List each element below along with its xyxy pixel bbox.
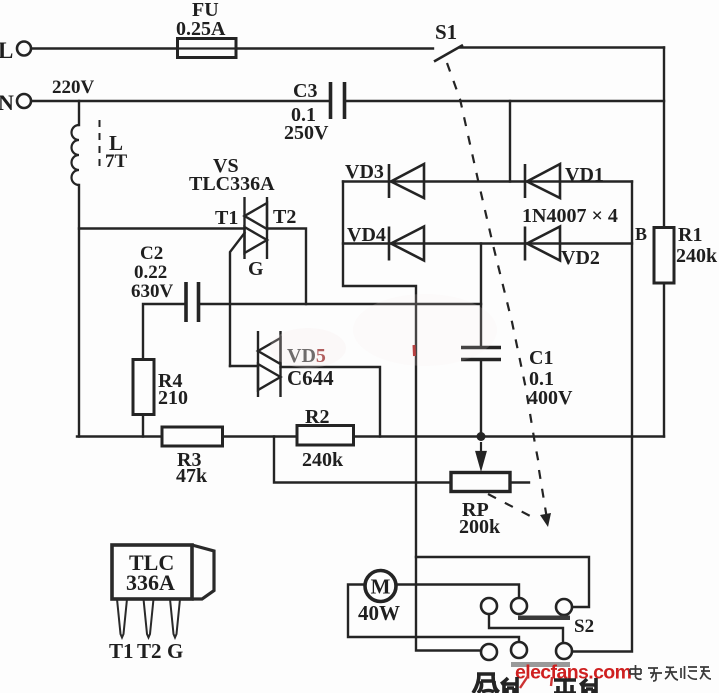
S2 contact A (481, 598, 497, 614)
svg-text:400V: 400V (528, 387, 573, 409)
switch S1 blade (434, 45, 463, 62)
svg-text:T1: T1 (215, 207, 238, 229)
wire T2 lead and drop (267, 229, 306, 305)
label zhengxiang 正向 (drawn strokes) (554, 678, 596, 693)
svg-text:N: N (0, 90, 14, 115)
RP wiper arrow (477, 442, 486, 468)
svg-text:T1: T1 (109, 639, 134, 663)
wire A to F link (489, 614, 563, 643)
svg-text:VD4: VD4 (347, 224, 386, 246)
wire R1 bottom to bottom bus (663, 283, 665, 437)
svg-text:C644: C644 (287, 366, 334, 390)
wire VD5 left lead (230, 365, 258, 367)
potentiometer RP (451, 473, 510, 492)
wire motor right to B (397, 585, 520, 599)
svg-text:VD1: VD1 (565, 164, 604, 186)
wire VD5 right lead to R2 right (281, 367, 381, 437)
diode VD4 (389, 227, 424, 261)
watermark chinese characters (drawn strokes) (630, 665, 711, 681)
wire bottom bus y=436 (77, 435, 664, 437)
node junction dot (477, 432, 486, 441)
label fanxiang 反向 (drawn strokes) (473, 674, 517, 693)
dashed link S1 to RP (447, 63, 547, 519)
wire node line y=304 (199, 303, 482, 305)
wire bridge right edge down to S2 (572, 182, 632, 652)
resistor R3 (162, 427, 223, 446)
svg-text:250V: 250V (284, 122, 329, 144)
wire N line (32, 100, 664, 102)
wire bridge left edge and step to x416 (343, 182, 481, 651)
resistor R2 (297, 426, 354, 446)
red tick on wire (413, 345, 417, 356)
wire L line fuse to S1 (236, 47, 433, 49)
svg-text:S1: S1 (435, 20, 457, 44)
svg-text:R1: R1 (678, 224, 702, 246)
svg-text:240k: 240k (676, 245, 718, 267)
S2 contact B (511, 598, 527, 614)
svg-text:630V: 630V (131, 281, 174, 302)
svg-text:240k: 240k (302, 449, 344, 471)
svg-text:220V: 220V (52, 77, 95, 98)
resistor R4 (133, 360, 154, 415)
terminal N (17, 94, 31, 108)
wire y557 link to S2 C (416, 557, 589, 607)
svg-text:40W: 40W (358, 601, 400, 625)
motor M (365, 571, 396, 602)
resistor R1 (654, 228, 674, 284)
svg-text:G: G (167, 639, 183, 663)
watermark faint blobs (353, 294, 497, 366)
wire bridge bottom row (343, 242, 632, 244)
svg-text:B: B (635, 224, 647, 244)
S2 slider bar bottom (511, 662, 570, 667)
triac VS TLC336A (245, 197, 268, 259)
svg-text:T2: T2 (137, 639, 162, 663)
inductor core dashed line (99, 120, 101, 168)
svg-text:7T: 7T (105, 151, 128, 172)
svg-text:0.25A: 0.25A (176, 18, 226, 40)
wire left vertical (78, 101, 80, 437)
svg-text:M: M (371, 575, 391, 599)
transistor VD5 C644 (258, 331, 281, 397)
capacitor C3 plates (331, 82, 345, 119)
svg-text:C2: C2 (140, 243, 163, 264)
svg-text:S2: S2 (574, 616, 594, 637)
diode VD2 (525, 227, 560, 261)
svg-text:TLC336A: TLC336A (189, 173, 275, 195)
wire N drop to bridge (509, 101, 511, 182)
wire L line after S1 (460, 46, 664, 48)
svg-text:47k: 47k (176, 465, 208, 487)
S2 contact C (556, 599, 572, 615)
wire R3R2 junction drop to RP (274, 437, 451, 483)
wire right vertical to R1 top (663, 48, 665, 228)
svg-text:336A: 336A (126, 570, 175, 595)
svg-text:VD2: VD2 (561, 247, 600, 269)
fuse FU (178, 39, 237, 58)
diode VD1 (525, 164, 560, 198)
wire bridge top row (343, 180, 632, 182)
inductor L coil (72, 125, 80, 185)
red slide direction marks (520, 676, 552, 688)
wire L line left (31, 47, 177, 49)
svg-text:C1: C1 (529, 347, 553, 369)
S2 contact F (556, 643, 572, 659)
wire bridge mid vertical to C1 (480, 244, 482, 437)
diode VD3 (389, 164, 424, 198)
svg-text:210: 210 (158, 387, 188, 409)
S2 contact E (511, 642, 527, 658)
svg-text:T2: T2 (273, 206, 296, 228)
wire motor left loop to E (348, 585, 519, 643)
svg-text:0.22: 0.22 (134, 262, 167, 283)
capacitor C2 plates (186, 282, 199, 322)
S2 contact D (481, 644, 497, 660)
wire T1 lead (79, 227, 245, 229)
svg-text:R2: R2 (305, 406, 329, 428)
wire C2 left lead and R4 chain (143, 304, 186, 437)
wire gate lead of VS (230, 233, 245, 366)
terminal L (17, 42, 31, 56)
svg-text:L: L (0, 38, 13, 63)
svg-text:200k: 200k (459, 516, 501, 538)
S2 slider bar top (518, 616, 570, 621)
svg-text:G: G (248, 258, 264, 280)
dashed link arrowhead (540, 513, 551, 527)
svg-text:1N4007 × 4: 1N4007 × 4 (522, 205, 618, 227)
svg-text:VD3: VD3 (345, 161, 384, 183)
capacitor C1 plates (461, 348, 501, 360)
svg-text:C3: C3 (293, 80, 317, 102)
TLC336A package body (112, 545, 214, 638)
wire RP right lead (510, 481, 529, 483)
